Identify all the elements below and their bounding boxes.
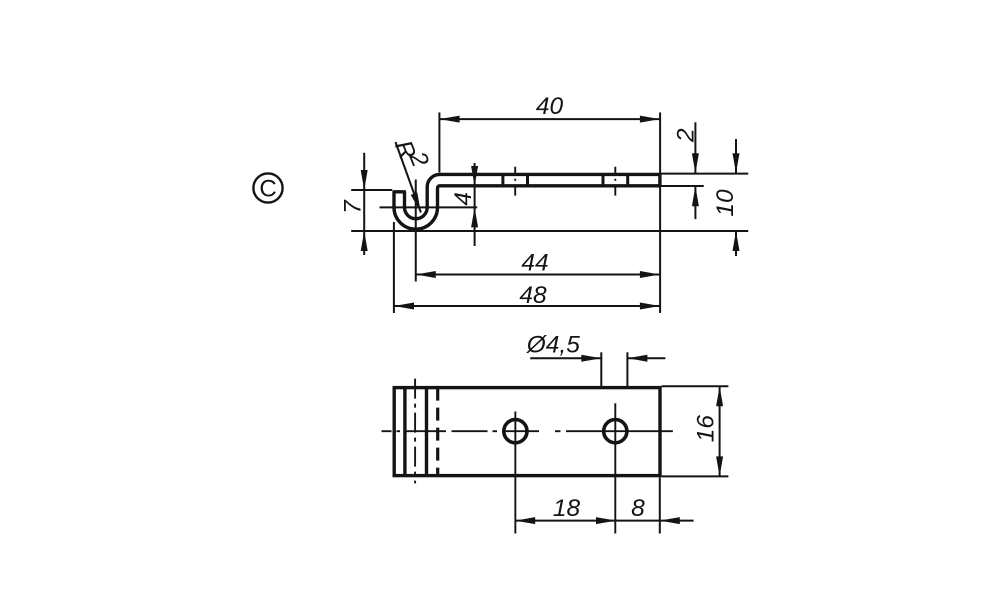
svg-text:Ø4,5: Ø4,5	[526, 331, 580, 358]
dimension 44 arrows	[416, 271, 660, 278]
plan view plate outline	[394, 388, 660, 476]
view label circle C	[253, 173, 282, 202]
dimension 48 line	[394, 305, 660, 307]
svg-text:2: 2	[673, 128, 700, 143]
hole 2	[604, 420, 627, 443]
svg-text:10: 10	[712, 189, 739, 217]
hole 1	[504, 420, 527, 443]
side view part outline (hook profile)	[394, 174, 660, 229]
svg-text:4: 4	[450, 192, 477, 206]
plan view bend centerline vertical	[414, 379, 416, 484]
extension line strip top right	[661, 173, 748, 175]
plan view hidden bend edge (dashed)	[436, 388, 439, 476]
diameter dimension arrows	[581, 355, 647, 362]
svg-text:8: 8	[631, 495, 645, 522]
dimension 7 arrows	[361, 170, 368, 251]
svg-text:C: C	[259, 176, 276, 203]
hole edge ticks in side view	[503, 174, 628, 185]
plan view lip inner edge	[403, 388, 406, 476]
plan view horizontal centerline	[382, 430, 673, 432]
radius R2 leader arrow	[411, 193, 421, 213]
dimension 48 left extension line	[393, 222, 395, 313]
dimension 44 line	[416, 274, 660, 276]
hole 1 centerline vertical	[514, 412, 516, 534]
hook centerline horizontal (4 extension)	[380, 206, 478, 208]
svg-text:40: 40	[536, 93, 564, 120]
right extension line (part end)	[659, 112, 661, 313]
dimension 16 line	[719, 386, 721, 476]
dimension 18 and 8 line	[515, 520, 693, 522]
dimension 10 line	[735, 139, 737, 256]
dimension 18 arrows	[515, 517, 616, 524]
dimension 4 line	[474, 163, 476, 246]
svg-text:48: 48	[519, 282, 547, 309]
top extension line of lip (7)	[351, 189, 392, 191]
diameter dimension lines	[530, 352, 665, 388]
dimension 7 line	[363, 153, 365, 255]
hole center marks in side view	[515, 167, 615, 196]
svg-text:16: 16	[692, 415, 719, 443]
dimension 16 arrows	[716, 386, 723, 476]
dimension 10 arrows	[733, 153, 740, 251]
hook centerline vertical (44 extension)	[415, 180, 417, 282]
svg-text:18: 18	[553, 495, 581, 522]
dimension 40 line	[440, 118, 660, 120]
plan view bend tangent edge	[425, 388, 428, 476]
radius R2 leader line	[396, 142, 421, 213]
dimension 40 left extension line	[438, 112, 440, 172]
dimension 2 line	[694, 122, 696, 219]
svg-text:7: 7	[339, 199, 366, 214]
dimension 4 arrows	[471, 166, 478, 227]
bottom extension line (7 and 10)	[351, 230, 748, 232]
dimension 48 arrows	[394, 303, 660, 310]
dimension 8 outside arrow	[660, 517, 680, 524]
hole 2 centerline vertical	[614, 403, 616, 533]
extension line strip bottom right	[661, 185, 704, 187]
dimension 2 arrows	[692, 153, 699, 206]
dimension 8 right extension line	[659, 478, 661, 534]
dimension 16 extension lines	[662, 386, 729, 476]
svg-text:44: 44	[521, 249, 548, 276]
dimension 40 arrows	[440, 116, 660, 123]
